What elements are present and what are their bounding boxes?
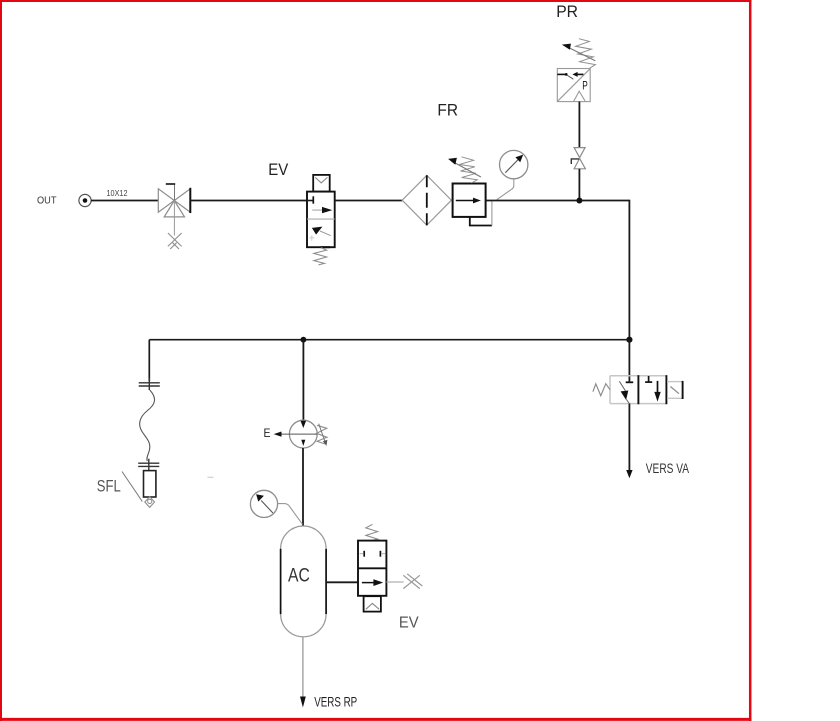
- spring below EV1: [314, 248, 327, 265]
- wire AC bottom to arrow VERS RP: [302, 637, 304, 697]
- svg-text:EV: EV: [399, 615, 419, 632]
- solenoid of EV1: [313, 175, 330, 192]
- valve V1 (manual 3-way ball valve): [158, 184, 190, 217]
- node N2 junction: [626, 337, 632, 343]
- svg-text:VERS RP: VERS RP: [314, 694, 357, 710]
- exhaust X below valve V1: [168, 233, 182, 249]
- valve V2 (manual shutoff under PR): [571, 148, 585, 169]
- svg-text:AC: AC: [288, 566, 310, 587]
- wire node N2 to valve W1: [628, 340, 630, 382]
- silencer SFL tip diamond: [145, 497, 155, 508]
- spring above EV2: [366, 524, 378, 540]
- coupling union upper (SFL branch): [139, 378, 160, 391]
- svg-text:FR: FR: [437, 102, 458, 120]
- feedback loop under FR regulator: [470, 201, 492, 226]
- pilot box of valve W1: [667, 381, 683, 399]
- pressure gauge G1 (FR): [497, 150, 528, 199]
- silencer SFL body: [144, 471, 156, 497]
- wire OUT to valve V1: [91, 200, 158, 202]
- arrow VERS VA: [626, 470, 632, 478]
- wire valve W1 to arrow VERS VA: [628, 404, 630, 471]
- wire corner down to node N2: [628, 200, 630, 340]
- wire AC to EV2: [326, 581, 358, 583]
- valve EV2 body: [358, 541, 386, 596]
- spring of PR: [576, 39, 596, 68]
- pressure gauge G2 (AC): [250, 490, 302, 524]
- solenoid below EV2: [364, 596, 381, 611]
- node N3 junction: [301, 337, 307, 343]
- svg-text:PR: PR: [556, 3, 578, 21]
- svg-text:10X12: 10X12: [107, 188, 128, 198]
- svg-text:VERS VA: VERS VA: [646, 460, 690, 476]
- wire FR to corner (main line): [486, 200, 630, 202]
- wire PR box to valve V2: [578, 102, 580, 148]
- wire node N3 down to relief valve R1: [302, 340, 304, 422]
- valve W1 (pilot operated 2-way, right side): [610, 375, 667, 404]
- flexible hose SFL branch: [140, 390, 155, 461]
- adjustment arrow of PR: [562, 44, 596, 61]
- spring of valve W1: [593, 384, 610, 396]
- node N1 junction: [576, 198, 582, 204]
- wire valve V2 to node N1: [578, 169, 580, 201]
- wire valve V1 to EV1: [190, 200, 307, 202]
- wire bus2 left turn down to coupling: [148, 340, 150, 382]
- wire relief valve R1 to accumulator AC: [302, 448, 304, 527]
- spring of FR regulator: [459, 157, 477, 183]
- svg-text:P: P: [582, 78, 588, 92]
- spring of relief valve R1: [317, 424, 328, 446]
- coupling union lower (SFL branch): [138, 459, 159, 470]
- svg-text:SFL: SFL: [97, 478, 121, 496]
- wire EV1 to filter FR: [335, 200, 403, 202]
- svg-text:OUT: OUT: [37, 195, 57, 207]
- valve EV1 body: [307, 192, 335, 248]
- port OUT connector: [79, 194, 91, 206]
- svg-text:EV: EV: [268, 161, 288, 179]
- relief valve R1 (circle with E exhaust): [274, 420, 318, 448]
- adjustment arrow of FR regulator: [448, 158, 481, 177]
- arrow VERS RP: [300, 697, 306, 708]
- filter diamond of FR: [402, 175, 451, 225]
- regulator box of FR: [453, 184, 486, 217]
- leader line SFL: [122, 472, 142, 502]
- drain line of valve V1: [173, 201, 175, 236]
- stray mark: [208, 476, 214, 478]
- exhaust X right of EV2: [403, 574, 422, 589]
- accumulator AC vessel: [281, 526, 327, 637]
- wire bus line 2: [149, 339, 629, 341]
- svg-text:E: E: [264, 428, 271, 440]
- wire EV2 to exhaust X: [386, 581, 403, 583]
- pressure switch PR box: [557, 69, 590, 102]
